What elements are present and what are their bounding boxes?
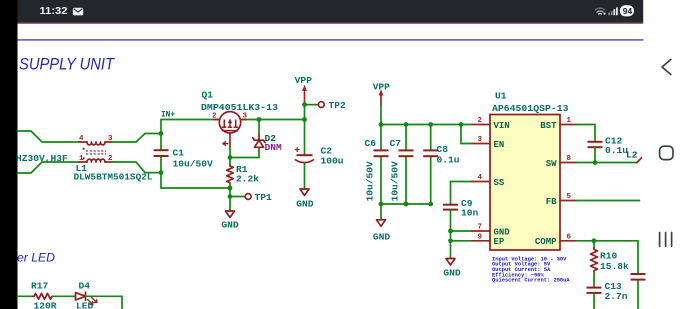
sheet border line (blue) (18, 39, 644, 40)
ground GND (R1) (221, 211, 239, 231)
svg-text:100u: 100u (321, 156, 344, 167)
wire COMP down right (637, 241, 639, 274)
junction (448, 229, 453, 234)
svg-text:FB: FB (546, 197, 557, 207)
ground GND (C2) (296, 189, 314, 210)
wifi icon (595, 8, 606, 15)
wire LED row left (18, 295, 33, 297)
wire VPP node vertical (304, 105, 306, 155)
svg-text:LED: LED (76, 301, 94, 309)
junction (228, 186, 233, 191)
capacitor (output, unlabeled) (631, 274, 646, 280)
svg-text:GND: GND (296, 199, 314, 210)
cellular bars (608, 7, 618, 15)
svg-text:2: 2 (212, 113, 217, 121)
diode D4 (LED) (76, 292, 98, 304)
junction (459, 122, 464, 127)
pin COMP stub (560, 240, 577, 242)
svg-text:VIN: VIN (494, 121, 510, 131)
pin EP stub (472, 240, 490, 242)
junction (404, 202, 409, 207)
svg-text:SW: SW (546, 159, 557, 169)
svg-text:TP1: TP1 (255, 192, 273, 203)
svg-text:2: 2 (478, 117, 483, 125)
junction (428, 202, 433, 207)
svg-text:EN: EN (494, 140, 505, 150)
left cutout strip (0, 0, 18, 309)
svg-text:GND: GND (373, 232, 391, 243)
capacitor C7 (399, 125, 414, 205)
wire vertical input node (160, 120, 162, 151)
svg-text:2.7n: 2.7n (605, 291, 628, 302)
U1 info note (492, 256, 570, 283)
svg-text:AP64501QSP-13: AP64501QSP-13 (492, 103, 569, 114)
svg-text:GND: GND (221, 220, 239, 231)
svg-text:120R: 120R (34, 301, 57, 309)
svg-text:8: 8 (567, 155, 572, 163)
maroon separator line (18, 22, 644, 23)
nav recents bars (660, 233, 672, 247)
nav home button (660, 146, 673, 159)
svg-text:VPP: VPP (295, 75, 313, 86)
svg-text:6: 6 (567, 233, 572, 241)
svg-text:9: 9 (478, 233, 483, 241)
wire VIN rail (381, 124, 472, 126)
wire COMP (577, 240, 639, 242)
resistor R10 (591, 248, 598, 272)
svg-text:R10: R10 (600, 251, 618, 262)
svg-text:94: 94 (623, 6, 633, 16)
wire R10 top (593, 241, 595, 248)
junction (428, 122, 433, 127)
svg-text:Quiescent Current: 250uA: Quiescent Current: 250uA (492, 278, 570, 284)
capacitor C2 (polarized) (295, 147, 314, 162)
wire EN tap (461, 125, 472, 144)
svg-text:DMP4051LK3-13: DMP4051LK3-13 (201, 102, 278, 113)
capacitor C12 (588, 142, 603, 163)
svg-text:C7: C7 (390, 138, 402, 149)
svg-text:C1: C1 (173, 148, 185, 159)
wire source to D2 (258, 120, 260, 135)
wire EP pin (451, 240, 473, 242)
svg-text:1: 1 (567, 117, 572, 125)
junction (302, 102, 307, 107)
svg-text:COMP: COMP (535, 237, 557, 247)
junction (379, 202, 384, 207)
svg-text:L2: L2 (626, 150, 638, 161)
junction (448, 238, 453, 243)
pin VIN stub (472, 124, 490, 126)
battery pill 94 (620, 5, 634, 16)
capacitor C9 (443, 205, 458, 259)
status envelope icon (73, 8, 83, 16)
svg-text:EP: EP (494, 237, 505, 247)
junction (257, 117, 262, 122)
wire gate to D2 (230, 148, 259, 158)
svg-text:GND: GND (494, 227, 511, 237)
junction (228, 194, 233, 199)
svg-text:TP2: TP2 (329, 100, 347, 111)
svg-text:BST: BST (540, 121, 557, 131)
svg-text:D4: D4 (79, 281, 91, 292)
svg-text:IN+: IN+ (161, 111, 175, 119)
wire to gnd (380, 204, 382, 220)
ground GND (C9/EP) (443, 259, 461, 279)
junction (404, 122, 409, 127)
inductor L2 start (cut) (637, 158, 642, 163)
wire main rail to Q1 (161, 119, 220, 121)
junction (379, 122, 384, 127)
wire choke bottom to node (112, 162, 161, 173)
pin SS stub (472, 181, 490, 183)
capacitor C1 (154, 150, 169, 156)
wire SW (577, 162, 638, 164)
ground GND (caps) (373, 220, 391, 243)
wire C2 to gnd (304, 164, 306, 190)
wire GND pin (451, 230, 473, 232)
junction (592, 238, 597, 243)
nav back chevron (662, 60, 671, 75)
capacitor C8 (423, 125, 438, 205)
wire D4 right down (86, 296, 123, 309)
svg-text:DNM: DNM (265, 142, 283, 153)
svg-text:10u/50V: 10u/50V (390, 161, 401, 202)
diode D2 (zener) (253, 134, 265, 147)
resistor R1 (227, 165, 234, 184)
junction (302, 117, 307, 122)
IC U1 body (490, 115, 560, 251)
svg-text:10u/50V: 10u/50V (365, 161, 376, 202)
svg-text:5: 5 (567, 193, 572, 201)
pin FB stub (560, 200, 577, 202)
choke L1 (79, 142, 112, 162)
svg-text:7: 7 (478, 224, 483, 232)
svg-text:2.2k: 2.2k (236, 174, 259, 185)
pin SW stub (560, 162, 577, 164)
svg-text:Q1: Q1 (202, 90, 214, 101)
wire R1 to gnd (229, 184, 231, 212)
capacitor C6 (374, 125, 389, 205)
svg-text:3: 3 (243, 113, 248, 121)
wire gate down (229, 147, 231, 165)
power VPP (main) (295, 75, 313, 105)
test point TP2 (318, 102, 324, 108)
wire choke top to node (112, 134, 161, 143)
transistor Q1 (214, 112, 246, 147)
svg-text:3: 3 (478, 136, 483, 144)
power VPP (U1 section) (373, 82, 391, 105)
status bar (18, 0, 644, 22)
resistor R17 (33, 293, 54, 299)
svg-text:1: 1 (79, 155, 84, 163)
svg-text:VPP: VPP (373, 82, 391, 93)
svg-text:GND: GND (443, 268, 461, 279)
wire to TP2 (305, 104, 319, 106)
capacitor C13 (587, 288, 602, 309)
wire R17 to D4 (53, 295, 76, 297)
svg-text:0.1u: 0.1u (605, 145, 628, 156)
svg-text:11:32: 11:32 (40, 6, 68, 17)
svg-text:10u/50V: 10u/50V (173, 159, 214, 170)
svg-text:4: 4 (478, 174, 483, 182)
svg-text:U1: U1 (495, 91, 507, 102)
svg-text:SS: SS (494, 178, 505, 188)
svg-text:SUPPLY UNIT: SUPPLY UNIT (19, 56, 115, 74)
svg-text:15.8k: 15.8k (600, 261, 629, 272)
wire bottom-left input (18, 162, 80, 173)
junction (159, 131, 164, 136)
pin EN stub (472, 143, 490, 145)
pin BST stub (560, 124, 577, 126)
svg-text:HZ30V,H3F: HZ30V,H3F (16, 153, 68, 164)
wire VPP to VIN rail (380, 105, 382, 125)
wire to TP1 (230, 196, 245, 198)
svg-text:4: 4 (79, 135, 84, 143)
wire Q1 to VPP node (241, 119, 305, 121)
svg-text:C6: C6 (365, 138, 377, 149)
svg-text:10n: 10n (461, 208, 479, 219)
svg-text:R17: R17 (31, 281, 49, 292)
wire BST to C12 (577, 125, 596, 142)
wire C1 bottom rail (161, 187, 230, 189)
test point TP1 (245, 194, 251, 200)
wire top-left input (18, 131, 80, 142)
junction (593, 160, 598, 165)
wire SS (451, 182, 473, 205)
junction gate node (228, 155, 233, 160)
pin GND stub (472, 230, 490, 232)
wire FB (577, 200, 640, 202)
svg-text:er LED: er LED (17, 251, 55, 265)
wire cap gnd rail (381, 203, 431, 205)
junction (159, 170, 164, 175)
svg-text:DLW5BTM501SQ2L: DLW5BTM501SQ2L (74, 172, 153, 183)
svg-text:C8: C8 (437, 144, 449, 155)
wire R10 to C13 (593, 272, 595, 288)
svg-text:0.1u: 0.1u (437, 155, 460, 166)
